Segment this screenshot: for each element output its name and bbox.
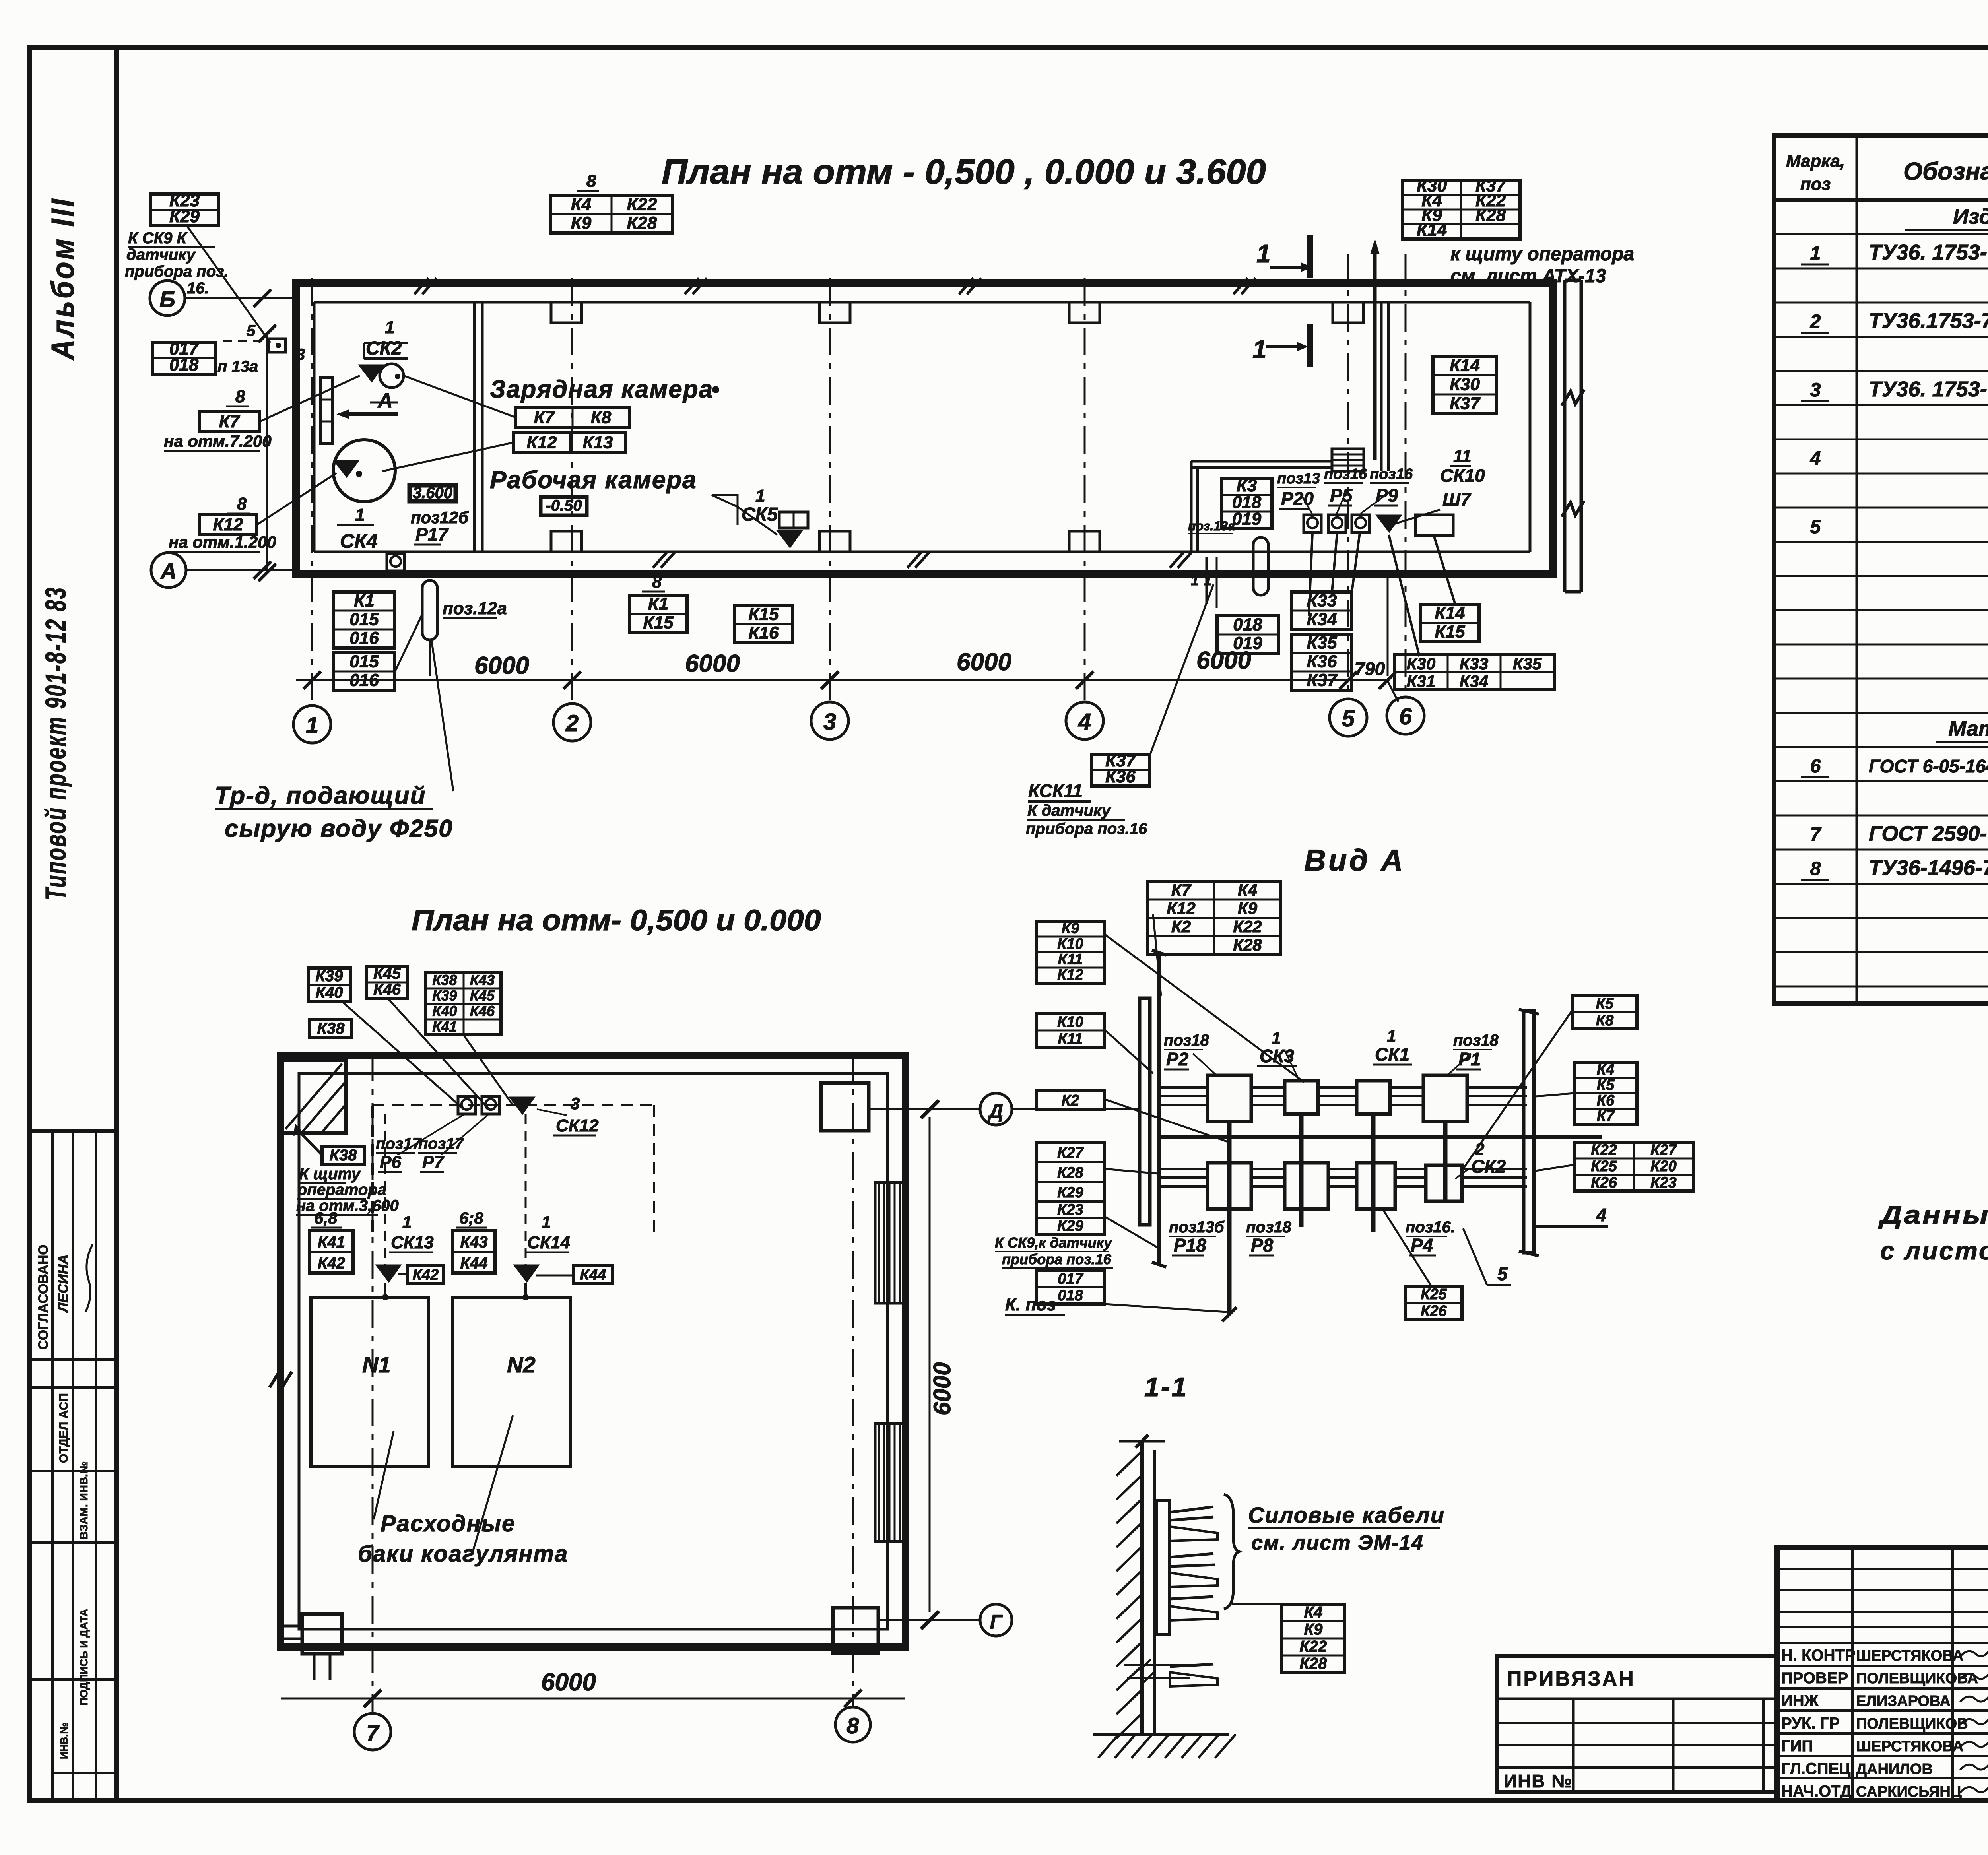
column grid line 4 bbox=[1084, 278, 1086, 703]
svg-text:Силовые кабели: Силовые кабели bbox=[1248, 1502, 1445, 1527]
tank N2 bbox=[453, 1297, 571, 1466]
svg-text:3.600: 3.600 bbox=[413, 484, 452, 502]
elevation box 3.600 bbox=[410, 485, 456, 501]
svg-text:К1: К1 bbox=[648, 594, 669, 614]
svg-text:К23: К23 bbox=[1057, 1201, 1083, 1218]
svg-text:К4: К4 bbox=[1238, 881, 1257, 899]
svg-text:1: 1 bbox=[542, 1213, 551, 1231]
svg-text:6000: 6000 bbox=[929, 1362, 955, 1415]
svg-text:2: 2 bbox=[565, 710, 579, 736]
svg-text:К28: К28 bbox=[627, 213, 658, 233]
svg-text:К28: К28 bbox=[1299, 1655, 1327, 1673]
svg-text:018: 018 bbox=[1233, 615, 1262, 635]
svg-text:План на отм - 0,500 , 0.000: План на отм - 0,500 , 0.000 и 3.600 bbox=[662, 152, 1266, 191]
view A leader К10 К11 bbox=[1105, 1030, 1153, 1073]
svg-text:ШЕРСТЯКОВА: ШЕРСТЯКОВА bbox=[1856, 1647, 1963, 1664]
elevation box -0.500 bbox=[541, 497, 587, 515]
right vertical dimension line bbox=[929, 1117, 931, 1612]
svg-text:К9: К9 bbox=[1062, 920, 1079, 937]
svg-text:К датчику: К датчику bbox=[1027, 802, 1111, 819]
view A leader top box to B2 bbox=[1153, 914, 1161, 996]
svg-text:Р20: Р20 bbox=[1281, 488, 1314, 509]
vertical conductor B2 to B6 bbox=[1299, 1114, 1304, 1227]
svg-text:СК2: СК2 bbox=[1471, 1156, 1506, 1177]
svg-text:ИНВ №: ИНВ № bbox=[1504, 1771, 1573, 1791]
svg-text:РУК. ГР: РУК. ГР bbox=[1781, 1715, 1840, 1732]
svg-text:018: 018 bbox=[1058, 1287, 1083, 1304]
svg-text:6000: 6000 bbox=[957, 648, 1011, 676]
svg-text:К4: К4 bbox=[1597, 1061, 1615, 1078]
label box 017 018 bbox=[153, 342, 215, 374]
section wall hatching bbox=[1116, 1451, 1142, 1476]
svg-text:ЕЛИЗАРОВА: ЕЛИЗАРОВА bbox=[1856, 1693, 1951, 1709]
svg-text:1: 1 bbox=[355, 505, 365, 525]
svg-text:2: 2 bbox=[1810, 311, 1821, 332]
svg-text:1: 1 bbox=[1387, 1026, 1396, 1045]
svg-text:Д: Д bbox=[987, 1100, 1003, 1122]
svg-text:К42: К42 bbox=[318, 1254, 345, 1272]
svg-text:К25: К25 bbox=[1421, 1286, 1447, 1303]
top plan bottom wall niche 3 bbox=[1069, 531, 1100, 552]
svg-text:К40: К40 bbox=[315, 984, 343, 1001]
left margin approval signature bbox=[85, 1244, 93, 1312]
svg-text:4: 4 bbox=[1596, 1205, 1607, 1225]
svg-text:К43: К43 bbox=[460, 1233, 487, 1251]
grid circle 7 bbox=[354, 1713, 391, 1750]
view A label box К9 К10 К11 К12 bbox=[1036, 921, 1105, 983]
leader lines from К7 К12 boxes to devices bbox=[259, 376, 360, 422]
section ground line bbox=[1093, 1733, 1229, 1736]
label box К30 К37 К4 К22 К9 К28 К14 bbox=[1402, 180, 1520, 239]
section ground hatching bbox=[1098, 1734, 1119, 1758]
svg-text:К27: К27 bbox=[1650, 1142, 1677, 1158]
svg-text:сырую воду Ф250: сырую воду Ф250 bbox=[225, 815, 453, 842]
svg-text:Р2: Р2 bbox=[1166, 1049, 1189, 1069]
title block upper small rows bbox=[1777, 1568, 1988, 1570]
flag СК14 bbox=[514, 1265, 539, 1282]
svg-text:8: 8 bbox=[586, 171, 596, 191]
svg-text:К7: К7 bbox=[1171, 881, 1192, 899]
svg-text:К27: К27 bbox=[1057, 1145, 1084, 1161]
svg-text:Обозначение: Обозначение bbox=[1903, 158, 1988, 185]
label box К39 К40 bbox=[308, 968, 350, 1001]
svg-text:1: 1 bbox=[402, 1213, 412, 1231]
top plan top wall niche 4 bbox=[1333, 302, 1363, 323]
svg-text:К9: К9 bbox=[1238, 899, 1258, 918]
svg-text:6: 6 bbox=[1810, 756, 1821, 777]
svg-text:ПРИВЯЗАН: ПРИВЯЗАН bbox=[1507, 1667, 1635, 1690]
junction box B4 bbox=[1423, 1075, 1467, 1122]
view A leader К9-К12 box bbox=[1105, 934, 1304, 1082]
svg-text:1: 1 bbox=[1191, 572, 1199, 588]
bottom plan building outer walls bbox=[281, 1056, 905, 1647]
svg-text:К15: К15 bbox=[643, 613, 674, 633]
svg-text:16.: 16. bbox=[187, 279, 209, 297]
svg-text:К14: К14 bbox=[1435, 603, 1465, 623]
top plan bottom wall niche 2 bbox=[819, 531, 850, 552]
svg-text:ВЗАМ. ИНВ.№: ВЗАМ. ИНВ.№ bbox=[78, 1461, 90, 1539]
svg-text:N2: N2 bbox=[507, 1352, 536, 1377]
svg-text:НАЧ.ОТД: НАЧ.ОТД bbox=[1781, 1783, 1852, 1800]
svg-text:ИНВ.№: ИНВ.№ bbox=[58, 1723, 70, 1759]
label box К30 К33 К35 К31 К34 row bbox=[1395, 655, 1554, 690]
svg-text:3: 3 bbox=[823, 709, 836, 735]
leader СК10 to flag bbox=[1392, 510, 1440, 525]
svg-text:Вид А: Вид А bbox=[1304, 844, 1405, 877]
svg-text:прибора поз.16: прибора поз.16 bbox=[1026, 820, 1147, 838]
svg-text:ТУ36. 1753-75: ТУ36. 1753-75 bbox=[1869, 377, 1988, 401]
bottom plan right wall hatched strip 2 bbox=[875, 1424, 905, 1541]
label box К38 К43 К39 К45 К40 К46 К41 bbox=[426, 973, 501, 1035]
svg-text:К37: К37 bbox=[1307, 671, 1338, 690]
svg-text:ТУ36.1753-75: ТУ36.1753-75 bbox=[1869, 309, 1988, 333]
svg-text:К40: К40 bbox=[432, 1003, 457, 1019]
svg-text:К8: К8 bbox=[1596, 1012, 1614, 1029]
svg-text:6000: 6000 bbox=[474, 652, 529, 679]
top plan top wall niche 1 bbox=[551, 302, 582, 323]
label box К33 К34 bbox=[1292, 592, 1352, 629]
svg-text:поз.13а: поз.13а bbox=[1188, 519, 1235, 533]
top plan dimension line bbox=[296, 679, 1388, 681]
device СК2 flag bbox=[359, 365, 384, 382]
svg-text:Изделия заводов ГМА: Изделия заводов ГМА bbox=[1953, 205, 1988, 229]
svg-text:ЛЕСИНА: ЛЕСИНА bbox=[56, 1255, 71, 1313]
grid row circle Б bbox=[150, 281, 185, 316]
specification table column lines bbox=[1856, 135, 1858, 1003]
svg-text:Р7: Р7 bbox=[422, 1153, 445, 1172]
top plan right strip break marks bbox=[1562, 390, 1584, 406]
svg-text:5: 5 bbox=[247, 322, 256, 340]
svg-text:с листом АТХ-13: с листом АТХ-13 bbox=[1880, 1236, 1988, 1265]
svg-text:К33: К33 bbox=[1307, 591, 1337, 611]
svg-text:К41: К41 bbox=[432, 1018, 457, 1034]
label box К12 bbox=[199, 515, 257, 535]
svg-text:К12: К12 bbox=[1167, 899, 1196, 918]
working chamber circle bbox=[333, 440, 395, 502]
title block name rows bbox=[1777, 1642, 1988, 1644]
svg-text:К щиту: К щиту bbox=[299, 1165, 361, 1183]
svg-text:на отм.7.200: на отм.7.200 bbox=[164, 432, 272, 450]
dashed drops to flags bbox=[384, 1114, 386, 1265]
junction box B3 bbox=[1357, 1081, 1390, 1114]
device СК4 flag bbox=[334, 460, 359, 477]
svg-text:К22: К22 bbox=[1591, 1142, 1617, 1158]
label box К44 right bbox=[573, 1266, 613, 1284]
svg-text:СОГЛАСОВАНО: СОГЛАСОВАНО bbox=[36, 1244, 51, 1350]
svg-text:6000: 6000 bbox=[541, 1669, 596, 1696]
svg-text:поз18: поз18 bbox=[1164, 1032, 1209, 1049]
svg-text:1: 1 bbox=[1810, 243, 1821, 264]
svg-text:ГОСТ 2590-71: ГОСТ 2590-71 bbox=[1869, 822, 1988, 846]
svg-text:К36: К36 bbox=[1105, 767, 1136, 786]
top plan building inner wall right bbox=[1529, 302, 1532, 552]
svg-text:К6: К6 bbox=[1597, 1092, 1615, 1109]
top plan building inner wall left bbox=[313, 302, 316, 552]
drawing area left border bbox=[114, 48, 119, 1801]
device СК5 flag and boxes bbox=[779, 512, 808, 528]
svg-text:К30: К30 bbox=[1407, 654, 1436, 673]
svg-text:Ш7: Ш7 bbox=[1442, 489, 1472, 510]
svg-text:К16: К16 bbox=[749, 623, 779, 643]
top plan interior wall A vertical bbox=[1380, 302, 1383, 471]
svg-text:ПОДПИСЬ И ДАТА: ПОДПИСЬ И ДАТА bbox=[78, 1609, 90, 1706]
svg-text:К35: К35 bbox=[1307, 633, 1338, 653]
view A label box К5 К8 bbox=[1573, 995, 1637, 1029]
svg-text:А: А bbox=[160, 559, 177, 584]
view A leader К23 К29 box bbox=[1105, 1217, 1159, 1248]
svg-text:К28: К28 bbox=[1475, 206, 1506, 225]
svg-text:К СК9 К: К СК9 К bbox=[128, 229, 188, 247]
svg-text:План на отм- 0,500 и 0.000: План на отм- 0,500 и 0.000 bbox=[412, 904, 821, 937]
svg-text:п 13а: п 13а bbox=[217, 358, 258, 375]
svg-text:К28: К28 bbox=[1233, 935, 1262, 954]
junction box B2 СК3 bbox=[1285, 1081, 1318, 1114]
label 4 with line bbox=[1536, 1225, 1608, 1228]
svg-text:Марка,: Марка, bbox=[1786, 151, 1845, 171]
view A left rail bar bbox=[1140, 998, 1150, 1225]
svg-text:К12: К12 bbox=[1057, 966, 1083, 983]
svg-text:на отм.1.200: на отм.1.200 bbox=[169, 533, 276, 551]
svg-text:К34: К34 bbox=[1307, 610, 1337, 629]
svg-text:К26: К26 bbox=[1591, 1174, 1617, 1191]
svg-text:ПРОВЕР: ПРОВЕР bbox=[1781, 1669, 1848, 1687]
pipe capsule near grid 5 bbox=[1253, 537, 1268, 595]
svg-text:К30: К30 bbox=[1450, 374, 1480, 394]
leader flag to К42 box bbox=[398, 1273, 408, 1275]
section brace bbox=[1224, 1494, 1239, 1609]
svg-text:6,8: 6,8 bbox=[314, 1209, 338, 1227]
label box К12 К13 bbox=[514, 432, 626, 453]
view A label box К25 К26 bbox=[1406, 1286, 1462, 1319]
svg-text:3: 3 bbox=[296, 346, 305, 363]
view A leader К4-К7 box bbox=[1536, 1093, 1574, 1096]
vertical conductor B3 to B7 bbox=[1371, 1114, 1376, 1232]
title block left columns bbox=[1851, 1547, 1854, 1801]
view A label box К27 К28 К29 bbox=[1036, 1142, 1105, 1202]
svg-text:1: 1 bbox=[1272, 1028, 1281, 1047]
svg-text:017: 017 bbox=[1058, 1271, 1083, 1287]
svg-text:ПОЛЕВЩИКОВ: ПОЛЕВЩИКОВ bbox=[1856, 1715, 1968, 1732]
svg-text:К4: К4 bbox=[571, 195, 592, 214]
leaders Р6 Р7 to devices bbox=[398, 1113, 466, 1155]
svg-text:К31: К31 bbox=[1407, 672, 1436, 691]
svg-text:К42: К42 bbox=[413, 1267, 439, 1283]
device at bottom wall left bbox=[387, 553, 404, 571]
svg-text:К38: К38 bbox=[317, 1020, 345, 1037]
svg-text:поз16: поз16 bbox=[1370, 466, 1413, 483]
view A leader К25 К26 to B7 bbox=[1384, 1211, 1431, 1286]
svg-text:Типовой проект 901-8-12 83: Типовой проект 901-8-12 83 bbox=[40, 586, 72, 900]
route devices on top edge bbox=[458, 1096, 476, 1114]
section tray bracket 3 bbox=[1170, 1597, 1213, 1599]
svg-text:Г: Г bbox=[990, 1611, 1003, 1633]
svg-text:К46: К46 bbox=[373, 981, 401, 998]
leader from К12К13 box to СК4 bbox=[382, 442, 514, 471]
svg-text:8: 8 bbox=[652, 572, 662, 592]
svg-text:К СК9,к датчику: К СК9,к датчику bbox=[995, 1234, 1112, 1251]
top plan detached right strip bbox=[1563, 280, 1567, 592]
svg-text:Данный лист читать совместн: Данный лист читать совместно bbox=[1878, 1201, 1988, 1229]
leader rect device to К14 К15 box bbox=[1434, 537, 1455, 604]
svg-text:Р17: Р17 bbox=[415, 524, 449, 545]
top plan building inner wall top bbox=[314, 301, 1530, 304]
label 5 with line bbox=[1487, 1284, 1511, 1286]
grid circle 1 bbox=[293, 706, 331, 743]
bottom plan hatched corner block bbox=[282, 1061, 346, 1133]
section mounting plate bbox=[1156, 1501, 1170, 1634]
label box К7 bbox=[199, 412, 259, 432]
vertical conductor from B4 bbox=[1443, 1122, 1448, 1201]
top plan partition wall of charging chamber bbox=[473, 302, 476, 552]
flag СК13 bbox=[376, 1265, 401, 1282]
svg-text:6000: 6000 bbox=[685, 650, 740, 677]
view A label box К2 bbox=[1036, 1091, 1105, 1110]
svg-text:1: 1 bbox=[385, 318, 394, 337]
leader КСК11 to bottom wall device bbox=[1150, 584, 1213, 754]
svg-text:САРКИСЬЯНЦ: САРКИСЬЯНЦ bbox=[1856, 1783, 1962, 1800]
leader flag to box row bbox=[1389, 535, 1419, 656]
bottom plan left wall break mark bbox=[270, 1372, 292, 1387]
svg-text:поз16.: поз16. bbox=[1406, 1219, 1455, 1236]
arrow to operator shield bbox=[296, 1128, 322, 1155]
svg-text:поз18: поз18 bbox=[1246, 1219, 1292, 1236]
top plan top wall niche 3 bbox=[1069, 302, 1100, 323]
svg-text:К26: К26 bbox=[1421, 1303, 1447, 1319]
svg-text:019: 019 bbox=[1232, 509, 1262, 529]
svg-text:1: 1 bbox=[306, 712, 318, 738]
label box К35 К36 К37 bbox=[1292, 634, 1352, 690]
svg-text:СК14: СК14 bbox=[527, 1233, 570, 1252]
section wall top tick bbox=[1119, 1440, 1165, 1443]
grid circle Д bbox=[980, 1093, 1012, 1125]
svg-text:СК12: СК12 bbox=[556, 1116, 599, 1135]
svg-text:6;8: 6;8 bbox=[459, 1209, 483, 1227]
svg-text:К10: К10 bbox=[1057, 1014, 1083, 1030]
svg-text:К10: К10 bbox=[1057, 935, 1083, 952]
svg-text:прибора поз.16: прибора поз.16 bbox=[1002, 1251, 1112, 1267]
svg-text:К29: К29 bbox=[169, 207, 200, 226]
bottom plan top-right column block bbox=[821, 1083, 869, 1131]
arrow to operator panel bbox=[1373, 244, 1377, 460]
svg-text:5: 5 bbox=[1497, 1263, 1508, 1284]
svg-text:8: 8 bbox=[237, 494, 247, 514]
svg-text:015: 015 bbox=[349, 652, 379, 671]
svg-text:К22: К22 bbox=[627, 195, 658, 214]
top plan left wall pilaster bbox=[320, 378, 332, 444]
leader 2col box down bbox=[463, 1034, 513, 1105]
leader tank N1 to text bbox=[374, 1431, 394, 1519]
svg-text:6: 6 bbox=[1399, 704, 1412, 730]
svg-text:поз13: поз13 bbox=[1277, 470, 1320, 487]
top plan wall break marks bbox=[414, 278, 429, 294]
svg-text:4: 4 bbox=[1078, 709, 1091, 735]
svg-text:К20: К20 bbox=[1650, 1158, 1677, 1175]
label box К38 single bbox=[310, 1019, 352, 1038]
grid Д line bbox=[869, 1108, 980, 1110]
svg-text:поз18: поз18 bbox=[1453, 1032, 1499, 1049]
top plan stair symbol bbox=[1332, 449, 1364, 471]
svg-text:790: 790 bbox=[1355, 658, 1385, 679]
top plan top wall niche 2 bbox=[819, 302, 850, 323]
svg-text:СК13: СК13 bbox=[391, 1233, 434, 1252]
svg-text:1: 1 bbox=[1204, 572, 1212, 588]
svg-text:8: 8 bbox=[1810, 858, 1821, 879]
room device 1 square bbox=[1304, 515, 1321, 532]
svg-text:4: 4 bbox=[1810, 448, 1821, 469]
room device 2 square bbox=[1328, 515, 1346, 532]
grid circle 3 bbox=[811, 702, 848, 739]
label box К3 018 019 bbox=[1221, 478, 1272, 528]
view A label box К22 К27 К25 К20 К26 К23 bbox=[1574, 1142, 1693, 1191]
svg-text:ГЛ.СПЕЦ: ГЛ.СПЕЦ bbox=[1781, 1760, 1850, 1777]
svg-text:К1: К1 bbox=[354, 591, 375, 611]
svg-text:Тр-д, подающий: Тр-д, подающий bbox=[215, 782, 426, 809]
label box К1 015 016 bbox=[334, 592, 395, 648]
svg-text:К11: К11 bbox=[1058, 951, 1083, 968]
svg-text:К15: К15 bbox=[749, 605, 779, 624]
label box К43 К44 bbox=[453, 1231, 495, 1273]
svg-text:К38: К38 bbox=[432, 972, 457, 988]
label box К4 К22 К9 К28 bbox=[551, 196, 672, 233]
junction box B1 bbox=[1208, 1075, 1251, 1122]
svg-text:К29: К29 bbox=[1057, 1218, 1083, 1234]
svg-text:баки коагулянта: баки коагулянта bbox=[358, 1541, 568, 1567]
svg-text:8: 8 bbox=[235, 387, 245, 406]
left margin approval table bbox=[30, 1129, 116, 1133]
svg-text:поз16: поз16 bbox=[1324, 466, 1367, 483]
svg-text:К14: К14 bbox=[1450, 355, 1480, 375]
bottom plan dimension line bbox=[281, 1698, 905, 1700]
svg-text:К12: К12 bbox=[527, 433, 557, 452]
svg-text:К45: К45 bbox=[470, 987, 495, 1003]
junction box B5 bbox=[1208, 1163, 1251, 1209]
svg-text:К22: К22 bbox=[1233, 917, 1262, 936]
svg-text:ТУ36-1496-71: ТУ36-1496-71 bbox=[1869, 856, 1988, 880]
svg-text:016: 016 bbox=[349, 629, 379, 648]
left vertical dimension line bbox=[266, 334, 268, 572]
svg-text:К38: К38 bbox=[329, 1147, 357, 1164]
svg-text:СК2: СК2 bbox=[366, 338, 402, 359]
svg-text:К44: К44 bbox=[460, 1254, 487, 1272]
svg-text:К2: К2 bbox=[1171, 917, 1191, 936]
section wall break marks bbox=[1124, 1664, 1187, 1666]
svg-text:Н. КОНТР: Н. КОНТР bbox=[1781, 1647, 1856, 1664]
svg-text:К5: К5 bbox=[1596, 995, 1614, 1012]
svg-text:К43: К43 bbox=[470, 972, 495, 988]
svg-text:ТУ36. 1753-75: ТУ36. 1753-75 bbox=[1869, 241, 1988, 264]
svg-text:прибора поз.: прибора поз. bbox=[125, 263, 229, 280]
section tray bracket 4 bbox=[1170, 1664, 1213, 1667]
svg-text:-0.50: -0.50 bbox=[546, 497, 582, 514]
specification table header underline bbox=[1774, 198, 1988, 202]
svg-text:К39: К39 bbox=[432, 987, 457, 1003]
leader from К7К8 box to СК2 bbox=[404, 376, 516, 417]
svg-text:К25: К25 bbox=[1591, 1158, 1617, 1175]
view A label box К7 К12 К2 К4 К9 К22 К28 bbox=[1148, 881, 1281, 955]
svg-text:N1: N1 bbox=[362, 1352, 391, 1377]
grid circle 4 bbox=[1066, 702, 1103, 739]
svg-text:3: 3 bbox=[1810, 380, 1821, 401]
room device flag bbox=[1376, 515, 1401, 532]
leader К45 К46 to device bbox=[388, 998, 489, 1109]
svg-text:А: А bbox=[377, 389, 393, 412]
view A leader К27 группы bbox=[1105, 1169, 1158, 1174]
top plan bottom wall niche 1 bbox=[551, 531, 582, 552]
room device rectangle bbox=[1415, 515, 1453, 536]
svg-text:1: 1 bbox=[1256, 239, 1271, 268]
svg-text:см. лист ЭМ-14: см. лист ЭМ-14 bbox=[1251, 1531, 1424, 1554]
grid circle 6 bbox=[1387, 697, 1424, 734]
